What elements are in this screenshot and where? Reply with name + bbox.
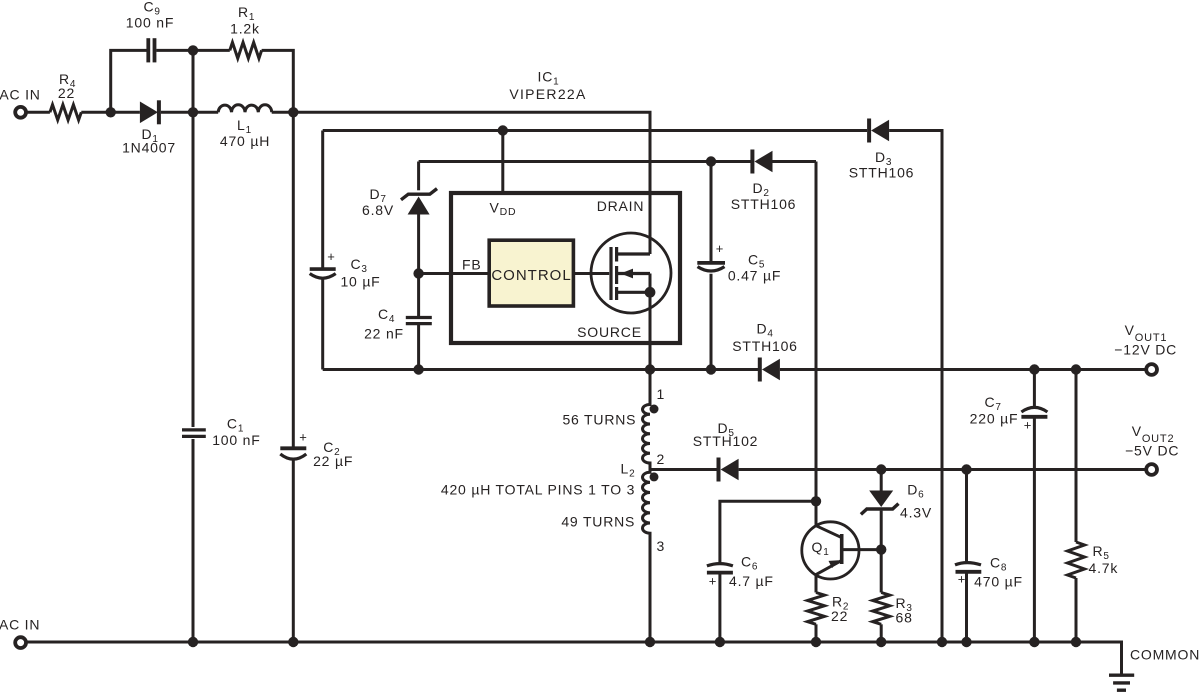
svg-text:470 µH: 470 µH bbox=[220, 133, 270, 149]
svg-text:22 µF: 22 µF bbox=[313, 453, 353, 469]
svg-text:−5V DC: −5V DC bbox=[1125, 442, 1179, 458]
svg-text:STTH106: STTH106 bbox=[849, 165, 915, 181]
svg-text:1.2k: 1.2k bbox=[230, 21, 260, 37]
svg-text:22: 22 bbox=[831, 608, 848, 624]
svg-text:22 nF: 22 nF bbox=[364, 326, 404, 342]
svg-text:4.3V: 4.3V bbox=[900, 505, 932, 521]
svg-text:2: 2 bbox=[657, 451, 666, 467]
svg-text:10 µF: 10 µF bbox=[340, 274, 380, 290]
svg-text:STTH102: STTH102 bbox=[693, 433, 759, 449]
svg-text:+: + bbox=[709, 574, 717, 589]
svg-text:+: + bbox=[716, 241, 724, 256]
svg-text:3: 3 bbox=[657, 538, 666, 554]
svg-text:4.7k: 4.7k bbox=[1089, 560, 1119, 576]
svg-text:6.8V: 6.8V bbox=[362, 202, 394, 218]
svg-text:68: 68 bbox=[896, 610, 913, 626]
svg-text:COMMON: COMMON bbox=[1130, 647, 1200, 663]
svg-text:STTH106: STTH106 bbox=[732, 338, 798, 354]
svg-text:100 nF: 100 nF bbox=[126, 15, 174, 31]
svg-text:+: + bbox=[327, 249, 335, 264]
svg-text:22: 22 bbox=[58, 85, 75, 101]
svg-text:1N4007: 1N4007 bbox=[122, 140, 176, 156]
svg-text:AC IN: AC IN bbox=[0, 86, 41, 102]
svg-text:470 µF: 470 µF bbox=[974, 574, 1023, 590]
svg-text:CONTROL: CONTROL bbox=[491, 267, 571, 284]
svg-text:+: + bbox=[1024, 418, 1032, 433]
svg-text:VIPER22A: VIPER22A bbox=[509, 86, 586, 102]
svg-text:4.7 µF: 4.7 µF bbox=[729, 573, 774, 589]
svg-text:DRAIN: DRAIN bbox=[597, 198, 645, 214]
svg-text:0.47 µF: 0.47 µF bbox=[728, 268, 781, 284]
svg-text:56 TURNS: 56 TURNS bbox=[562, 412, 636, 428]
svg-text:420 µH TOTAL PINS 1 TO 3: 420 µH TOTAL PINS 1 TO 3 bbox=[441, 482, 635, 498]
svg-text:+: + bbox=[299, 430, 307, 445]
svg-text:−12V DC: −12V DC bbox=[1114, 342, 1177, 358]
svg-text:SOURCE: SOURCE bbox=[577, 324, 642, 340]
svg-text:+: + bbox=[958, 571, 966, 586]
svg-text:FB: FB bbox=[462, 257, 482, 273]
svg-text:49 TURNS: 49 TURNS bbox=[561, 514, 635, 530]
svg-text:220 µF: 220 µF bbox=[970, 411, 1019, 427]
svg-text:100 nF: 100 nF bbox=[212, 432, 260, 448]
svg-text:STTH106: STTH106 bbox=[731, 196, 797, 212]
svg-text:1: 1 bbox=[657, 386, 666, 402]
svg-text:AC IN: AC IN bbox=[0, 616, 40, 632]
